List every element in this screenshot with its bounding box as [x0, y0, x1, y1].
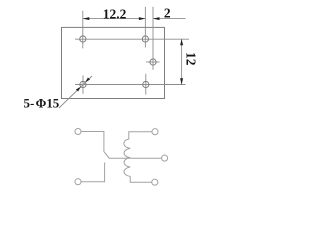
svg-text:12: 12	[184, 52, 199, 66]
svg-text:5-Φ15: 5-Φ15	[24, 97, 60, 111]
svg-text:12.2: 12.2	[103, 6, 127, 21]
svg-text:2: 2	[164, 5, 171, 20]
